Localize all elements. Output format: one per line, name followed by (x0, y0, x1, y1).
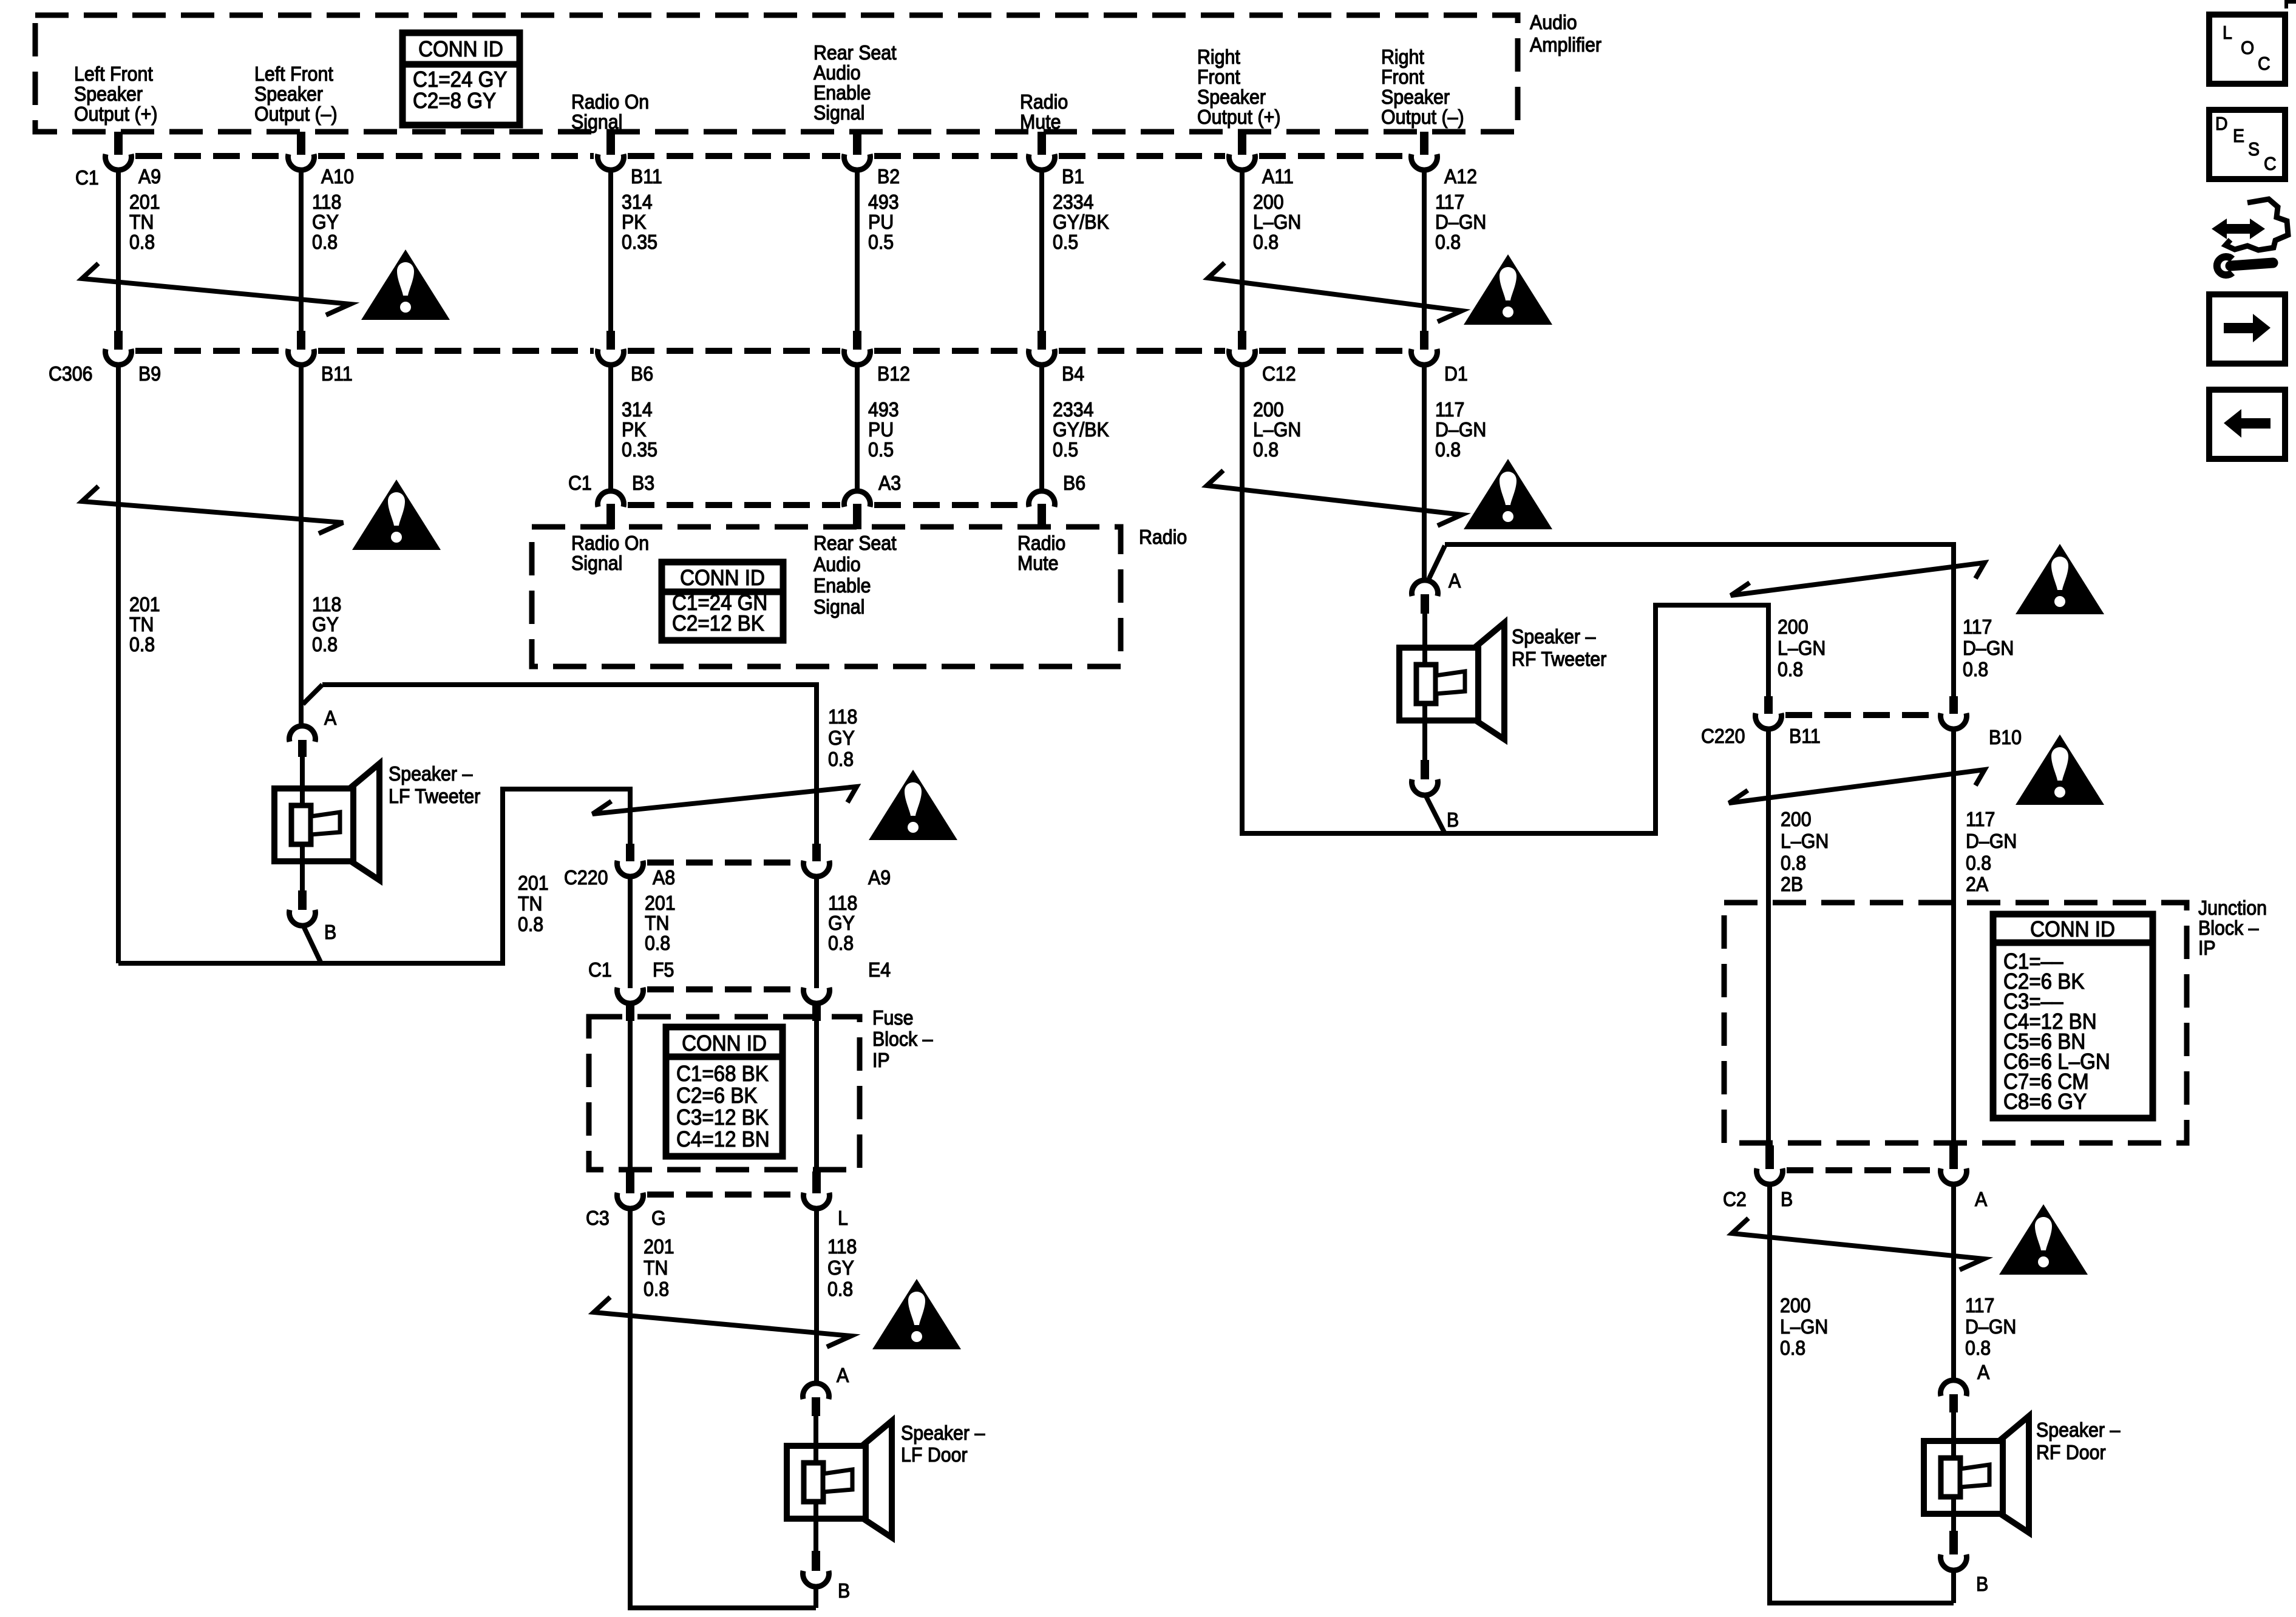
connector C306 pin B12 (853, 331, 861, 350)
fuse block pin L (812, 1171, 821, 1193)
wire 201 TN from C306 B9 down the left side (116, 364, 121, 963)
svg-text:201: 201 (645, 892, 676, 914)
svg-text:L–GN: L–GN (1781, 830, 1829, 852)
svg-text:200: 200 (1253, 191, 1284, 213)
svg-text:Signal: Signal (571, 552, 622, 574)
svg-text:Left Front: Left Front (254, 63, 333, 85)
svg-text:CONN ID: CONN ID (682, 1032, 767, 1056)
svg-text:Radio: Radio (1139, 526, 1187, 548)
warning triangle (C220 row) (869, 770, 957, 840)
warning triangle (left, row 1) (361, 249, 450, 320)
svg-text:L–GN: L–GN (1780, 1315, 1828, 1338)
wire from LF tweeter to B pin (300, 861, 305, 890)
svg-text:Front: Front (1381, 66, 1424, 88)
svg-text:D–GN: D–GN (1966, 830, 2017, 852)
wires from C306 to radio connector (608, 364, 613, 491)
fuse block pin G (626, 1171, 634, 1193)
connector C306 pin B6 (606, 331, 615, 350)
svg-text:0.8: 0.8 (518, 913, 543, 935)
svg-text:TN: TN (644, 1256, 668, 1279)
svg-text:A10: A10 (321, 165, 354, 188)
svg-text:C2=12 BK: C2=12 BK (672, 612, 764, 636)
svg-text:TN: TN (645, 912, 669, 934)
svg-text:D: D (2215, 114, 2228, 134)
svg-text:B1: B1 (1062, 165, 1084, 188)
svg-text:RF Door: RF Door (2036, 1441, 2106, 1463)
DESC icon box (2209, 110, 2285, 179)
wire 118 GY horizontal run to fuse block E4 drop (322, 685, 817, 844)
svg-text:Amplifier: Amplifier (1530, 33, 1601, 56)
svg-text:118: 118 (312, 191, 341, 213)
svg-text:C1=24 GY: C1=24 GY (413, 68, 508, 92)
connector row C1 (fuse block) dotted line (647, 986, 800, 992)
connector C220 pin B10 (1949, 696, 1958, 714)
junction block pin B (1765, 1145, 1774, 1169)
svg-text:117: 117 (1966, 808, 1995, 830)
fuse block pin E4 (804, 988, 830, 1003)
svg-text:C1: C1 (568, 472, 592, 494)
svg-text:B: B (324, 921, 336, 943)
connector C1 pin A12 (1420, 132, 1428, 155)
svg-text:C1=68 BK: C1=68 BK (676, 1062, 769, 1086)
speaker RF Door symbol (1999, 1416, 2029, 1533)
svg-text:Fuse: Fuse (872, 1006, 913, 1029)
svg-text:0.35: 0.35 (622, 438, 657, 461)
svg-text:117: 117 (1435, 191, 1464, 213)
svg-text:Output (+): Output (+) (1197, 106, 1280, 128)
svg-text:GY: GY (828, 727, 855, 749)
wire B11 to junction block (1766, 728, 1771, 1145)
svg-text:PU: PU (868, 418, 894, 441)
connector C1 pin A9 (114, 132, 123, 155)
connector C306 pin B11 (297, 331, 305, 350)
svg-text:D–GN: D–GN (1435, 418, 1486, 441)
svg-text:Mute: Mute (1017, 552, 1058, 574)
svg-text:0.8: 0.8 (827, 1278, 853, 1300)
svg-text:Signal: Signal (813, 595, 864, 618)
svg-text:200: 200 (1780, 1294, 1811, 1317)
svg-text:B: B (838, 1579, 850, 1602)
svg-text:493: 493 (868, 398, 899, 421)
caution arrow crossing wires 200/117 (row 1) (1208, 263, 1462, 322)
svg-text:LF Door: LF Door (901, 1443, 968, 1466)
connector C220 pin A8 (626, 844, 634, 861)
svg-text:B: B (1447, 808, 1459, 831)
svg-text:Mute: Mute (1020, 110, 1061, 133)
svg-text:C: C (2258, 53, 2271, 74)
svg-text:493: 493 (868, 191, 899, 213)
svg-text:B: B (1976, 1573, 1988, 1595)
svg-text:Output (+): Output (+) (74, 103, 157, 125)
connector C306 pin C12 (1238, 331, 1246, 350)
svg-text:C220: C220 (1701, 725, 1745, 747)
wire B10 to junction block (1951, 728, 1956, 1145)
svg-text:GY: GY (312, 211, 339, 233)
connector A of LF tweeter (290, 726, 316, 742)
svg-text:Signal: Signal (813, 101, 864, 124)
wires between C1 and C306 rows (116, 169, 121, 331)
svg-text:CONN ID: CONN ID (2030, 918, 2115, 942)
svg-text:Speaker: Speaker (1381, 86, 1450, 108)
caution arrow crossing wires 200/117 (row 2) (1207, 470, 1462, 526)
svg-text:0.8: 0.8 (1435, 438, 1461, 461)
svg-text:A11: A11 (1262, 165, 1294, 188)
connector C220 pin A9 (812, 844, 821, 861)
wire from A pin into LF tweeter (300, 757, 305, 788)
page corner mark (top right) (2286, 2, 2296, 8)
connector row C306 dotted line (135, 348, 284, 354)
svg-text:Speaker –: Speaker – (389, 762, 473, 785)
svg-text:201: 201 (129, 593, 160, 615)
wire from LF door B to bottom run (813, 1586, 818, 1608)
svg-text:L: L (2223, 22, 2232, 43)
wire A8 to fuse block F5 (628, 876, 633, 988)
previous-page arrow icon box (2209, 390, 2285, 459)
warning triangle (RF tweeter A row) (2016, 544, 2104, 614)
svg-text:117: 117 (1963, 615, 1992, 638)
connector C306 pin D1 (1420, 331, 1428, 350)
svg-text:B6: B6 (1063, 472, 1085, 494)
svg-text:CONN ID: CONN ID (680, 566, 765, 591)
svg-text:PK: PK (622, 418, 646, 441)
svg-text:0.8: 0.8 (312, 633, 338, 656)
svg-text:Radio On: Radio On (571, 90, 649, 113)
connector C306 pin B9 (114, 331, 123, 350)
svg-text:Rear Seat: Rear Seat (813, 532, 897, 554)
wire from RF door B to bottom run (1951, 1570, 1956, 1603)
svg-text:Speaker: Speaker (1197, 86, 1266, 108)
branch jog from RF tweeter A to horizontal run (1429, 546, 1445, 578)
svg-text:LF Tweeter: LF Tweeter (389, 785, 481, 807)
wire A9 to fuse block E4 (814, 876, 819, 988)
connector C1 pin B11 (606, 132, 615, 155)
svg-text:0.8: 0.8 (129, 231, 155, 253)
connector C1 pin B2 (853, 132, 861, 155)
svg-text:Radio: Radio (1020, 90, 1068, 113)
svg-text:GY/BK: GY/BK (1053, 211, 1109, 233)
caution arrow crossing at RF tweeter A (1731, 563, 1985, 595)
svg-text:D–GN: D–GN (1963, 637, 2014, 659)
svg-text:0.8: 0.8 (1435, 231, 1461, 253)
svg-text:B6: B6 (631, 362, 653, 385)
svg-text:GY/BK: GY/BK (1053, 418, 1109, 441)
connector C1 pin A10 (297, 132, 305, 155)
connector C1 pin A11 (1238, 132, 1246, 155)
svg-text:0.8: 0.8 (644, 1278, 669, 1300)
connector B of LF door speaker (812, 1551, 820, 1571)
connector B of RF door speaker (1949, 1531, 1958, 1554)
connector C1 pin B1 (1038, 132, 1046, 155)
svg-text:0.8: 0.8 (129, 633, 155, 656)
svg-text:C2=8 GY: C2=8 GY (413, 89, 496, 114)
svg-text:C306: C306 (49, 362, 93, 385)
svg-text:0.8: 0.8 (1965, 1337, 1991, 1359)
branch jog from 118 GY wire to horizontal run (303, 685, 322, 704)
speaker RF Tweeter symbol (1475, 623, 1504, 739)
svg-text:GY: GY (828, 912, 855, 934)
svg-text:0.5: 0.5 (1053, 438, 1078, 461)
LOC icon box (2209, 15, 2285, 84)
wire from RF tweeter to B pin (1422, 720, 1427, 760)
svg-text:Audio: Audio (813, 61, 861, 84)
svg-text:Speaker –: Speaker – (901, 1422, 985, 1444)
wire 201 TN bottom run up to C220 A8 (118, 789, 630, 963)
svg-text:0.8: 0.8 (1963, 658, 1988, 680)
svg-text:Speaker: Speaker (74, 83, 143, 105)
svg-text:IP: IP (872, 1049, 890, 1071)
svg-text:A: A (1975, 1188, 1988, 1210)
svg-text:2B: 2B (1781, 873, 1803, 895)
svg-text:117: 117 (1435, 398, 1464, 421)
CONN ID table (Fuse Block): C1=68 BK, C2=6 BK, C3=12 BK, C4=12 BN (666, 1027, 783, 1156)
connector row C1 (amplifier) dotted line (135, 153, 284, 159)
caution arrow crossing at C220 right (1729, 770, 1985, 803)
wire 117 D-GN horizontal run to C220 B10 drop (1445, 544, 1954, 696)
svg-text:O: O (2241, 38, 2254, 58)
wire from LF door speaker to B (813, 1519, 818, 1551)
svg-text:D–GN: D–GN (1965, 1315, 2016, 1338)
CONN ID table (Junction Block) (1993, 914, 2153, 1118)
svg-text:C3=12 BK: C3=12 BK (676, 1106, 769, 1130)
svg-text:CONN ID: CONN ID (418, 38, 503, 62)
svg-text:L–GN: L–GN (1778, 637, 1826, 659)
svg-text:B3: B3 (632, 472, 654, 494)
wire 118 GY from L to LF door A (814, 1207, 819, 1384)
svg-text:2334: 2334 (1053, 398, 1094, 421)
CONN ID table (Audio Amplifier): C1=24 GY, C2=8 GY (402, 33, 520, 125)
svg-text:Enable: Enable (813, 81, 871, 104)
svg-text:B10: B10 (1989, 726, 2022, 748)
svg-text:Radio On: Radio On (571, 532, 649, 554)
speaker LF Door symbol (862, 1421, 892, 1537)
wire into LF door speaker (813, 1416, 818, 1446)
svg-text:Audio: Audio (1530, 11, 1577, 33)
warning triangle (left, row 2) (352, 480, 441, 550)
svg-text:Rear Seat: Rear Seat (813, 41, 897, 64)
svg-text:0.5: 0.5 (1053, 231, 1078, 253)
Audio Amplifier dashed box (35, 15, 1518, 132)
svg-text:0.8: 0.8 (828, 748, 854, 770)
svg-text:117: 117 (1965, 1294, 1994, 1317)
svg-text:118: 118 (828, 892, 857, 914)
svg-text:C12: C12 (1262, 362, 1296, 385)
svg-text:B11: B11 (321, 362, 353, 385)
radio connector C1 pin B3 (598, 491, 624, 507)
svg-text:0.8: 0.8 (1966, 852, 1991, 874)
svg-text:B4: B4 (1062, 362, 1084, 385)
svg-text:Output (–): Output (–) (1381, 106, 1464, 128)
svg-text:0.5: 0.5 (868, 231, 894, 253)
wire 117 D-GN from junction A to RF door A (1951, 1184, 1956, 1380)
wire into RF tweeter (1422, 614, 1427, 648)
svg-text:2A: 2A (1966, 873, 1989, 895)
svg-text:201: 201 (129, 191, 160, 213)
svg-text:C4=12 BN: C4=12 BN (676, 1128, 770, 1152)
junction block pin A (1949, 1145, 1958, 1169)
wire 118 GY from C306 B11 down to LF tweeter (299, 364, 304, 726)
svg-text:L: L (838, 1207, 848, 1229)
svg-text:Signal: Signal (571, 110, 622, 133)
warning triangle (C220 right row) (2016, 734, 2104, 805)
svg-text:C2=6 BK: C2=6 BK (676, 1084, 757, 1108)
warning triangle (right, row 1) (1464, 254, 1552, 325)
svg-text:G: G (651, 1207, 666, 1229)
svg-text:Right: Right (1381, 46, 1424, 68)
svg-text:IP: IP (2198, 937, 2216, 959)
svg-text:0.8: 0.8 (1253, 438, 1279, 461)
radio connector row C1 dotted line (628, 502, 840, 508)
svg-text:GY: GY (312, 613, 339, 636)
svg-text:201: 201 (644, 1235, 674, 1258)
caution arrow crossing wires 201/118 (row 2) (82, 486, 343, 534)
connector C220 pin B11 (1764, 696, 1773, 714)
caution arrow crossing 201/118 at LF door (594, 1297, 851, 1347)
svg-text:A9: A9 (138, 165, 161, 188)
svg-text:A8: A8 (653, 866, 675, 889)
svg-text:Radio: Radio (1017, 532, 1065, 554)
svg-text:D1: D1 (1444, 362, 1468, 385)
svg-text:F5: F5 (653, 958, 674, 981)
svg-text:118: 118 (828, 705, 857, 728)
svg-text:Speaker –: Speaker – (2036, 1419, 2121, 1441)
wire 201 TN from G down and across the bottom (630, 1207, 816, 1608)
svg-text:PK: PK (622, 211, 646, 233)
svg-text:L–GN: L–GN (1253, 418, 1301, 441)
svg-text:D–GN: D–GN (1435, 211, 1486, 233)
caution arrow crossing wires 201/118 (row 1) (82, 263, 350, 315)
svg-text:0.35: 0.35 (622, 231, 657, 253)
Fuse Block - IP dashed box (589, 1017, 860, 1170)
svg-text:L–GN: L–GN (1253, 211, 1301, 233)
svg-text:C2: C2 (1723, 1188, 1747, 1210)
connector row C220 (B11/B10) dotted line (1785, 712, 1937, 718)
svg-text:200: 200 (1253, 398, 1284, 421)
svg-text:200: 200 (1781, 808, 1812, 830)
svg-text:201: 201 (518, 872, 549, 894)
svg-text:C1: C1 (75, 166, 99, 189)
svg-text:314: 314 (622, 191, 653, 213)
Junction Block - IP dashed box (1724, 903, 2187, 1143)
jog from LF tweeter B to 201 TN run (303, 925, 321, 963)
svg-text:Block –: Block – (872, 1028, 933, 1050)
svg-text:C1: C1 (588, 958, 612, 981)
svg-text:B11: B11 (631, 165, 662, 188)
Radio dashed box (532, 527, 1121, 666)
connector C306 pin B4 (1038, 331, 1046, 350)
fuse block pin F5 (617, 988, 644, 1003)
svg-text:Audio: Audio (813, 553, 861, 575)
next-page arrow icon box (2209, 294, 2285, 364)
svg-text:B: B (1781, 1188, 1793, 1210)
svg-text:B11: B11 (1789, 725, 1821, 747)
wire 200 L-GN from junction B down and across the bottom (1770, 1184, 1954, 1603)
svg-text:C8=6 GY: C8=6 GY (2003, 1090, 2087, 1114)
wire 200 L-GN from C306 C12 down, across and up to C220 B11 (1242, 364, 1768, 833)
warning triangle (right, row 2) (1464, 459, 1552, 529)
caution arrow crossing at RF door (1732, 1218, 1984, 1270)
svg-text:0.8: 0.8 (645, 932, 670, 954)
wire into RF door speaker (1951, 1412, 1956, 1441)
connector A of RF tweeter (1412, 580, 1438, 596)
connector A of RF door speaker (1941, 1380, 1967, 1396)
CONN ID table (Radio): C1=24 GN, C2=12 BK (662, 562, 783, 640)
svg-text:Front: Front (1197, 66, 1240, 88)
speaker LF Tweeter symbol (350, 764, 379, 880)
svg-text:A3: A3 (878, 472, 901, 494)
svg-text:S: S (2248, 139, 2260, 160)
svg-text:TN: TN (518, 892, 542, 915)
svg-text:RF Tweeter: RF Tweeter (1512, 648, 1607, 670)
connector B of LF tweeter (298, 890, 307, 910)
svg-text:GY: GY (827, 1256, 854, 1279)
svg-text:E4: E4 (868, 958, 891, 981)
svg-text:Speaker: Speaker (254, 83, 323, 105)
svg-text:2334: 2334 (1053, 191, 1094, 213)
svg-text:C: C (2264, 154, 2277, 174)
warning triangle (LF door row) (872, 1279, 961, 1349)
svg-text:A9: A9 (868, 866, 891, 889)
caution arrow crossing 201/118 at C220 (593, 787, 857, 814)
svg-text:118: 118 (312, 593, 341, 615)
warning triangle (RF door row) (1999, 1204, 2088, 1275)
svg-text:PU: PU (868, 211, 894, 233)
svg-text:0.8: 0.8 (1780, 1337, 1805, 1359)
connector row C3 (fuse block bottom) dotted line (647, 1192, 800, 1198)
svg-text:C3: C3 (586, 1207, 610, 1229)
wire from RF door speaker to B (1951, 1514, 1956, 1531)
svg-text:118: 118 (827, 1235, 857, 1258)
svg-text:B12: B12 (877, 362, 910, 385)
svg-text:0.5: 0.5 (868, 438, 894, 461)
wire 117 D-GN from C306 D1 down to RF tweeter A (1422, 364, 1427, 580)
svg-text:E: E (2233, 126, 2244, 146)
svg-text:0.8: 0.8 (312, 231, 338, 253)
svg-text:TN: TN (129, 613, 154, 636)
svg-text:A: A (1449, 569, 1461, 592)
svg-text:B2: B2 (877, 165, 900, 188)
connector B of RF tweeter (1421, 760, 1429, 779)
svg-text:Junction: Junction (2198, 897, 2267, 919)
svg-text:0.8: 0.8 (828, 932, 854, 954)
connector row C2 (junction block) dotted line (1787, 1167, 1937, 1173)
svg-text:0.8: 0.8 (1781, 852, 1806, 874)
svg-text:Right: Right (1197, 46, 1240, 68)
radio connector C1 pin A3 (844, 491, 871, 507)
svg-text:Speaker –: Speaker – (1512, 625, 1596, 648)
svg-text:Output (–): Output (–) (254, 103, 338, 125)
connector row C220 (A8/A9) dotted line (647, 859, 800, 866)
wires through fuse block (628, 1021, 633, 1173)
svg-text:A: A (1977, 1361, 1990, 1383)
svg-text:A: A (324, 707, 337, 729)
radio connector C1 pin B6 (1029, 491, 1055, 507)
svg-text:TN: TN (129, 211, 154, 233)
connector A of LF door speaker (803, 1383, 829, 1399)
svg-text:Left Front: Left Front (74, 63, 153, 85)
svg-text:A: A (837, 1364, 849, 1386)
svg-text:Enable: Enable (813, 574, 871, 597)
svg-text:B9: B9 (138, 362, 161, 385)
jog from RF tweeter B to 200 L-GN run (1425, 795, 1445, 833)
svg-text:A12: A12 (1444, 165, 1477, 188)
svg-text:Block –: Block – (2198, 917, 2259, 939)
svg-text:314: 314 (622, 398, 653, 421)
svg-text:200: 200 (1778, 615, 1809, 638)
svg-text:0.8: 0.8 (1778, 658, 1803, 680)
svg-text:0.8: 0.8 (1253, 231, 1279, 253)
svg-text:C220: C220 (564, 866, 608, 889)
vehicle harness icon with double arrow and wrench (2226, 199, 2288, 250)
